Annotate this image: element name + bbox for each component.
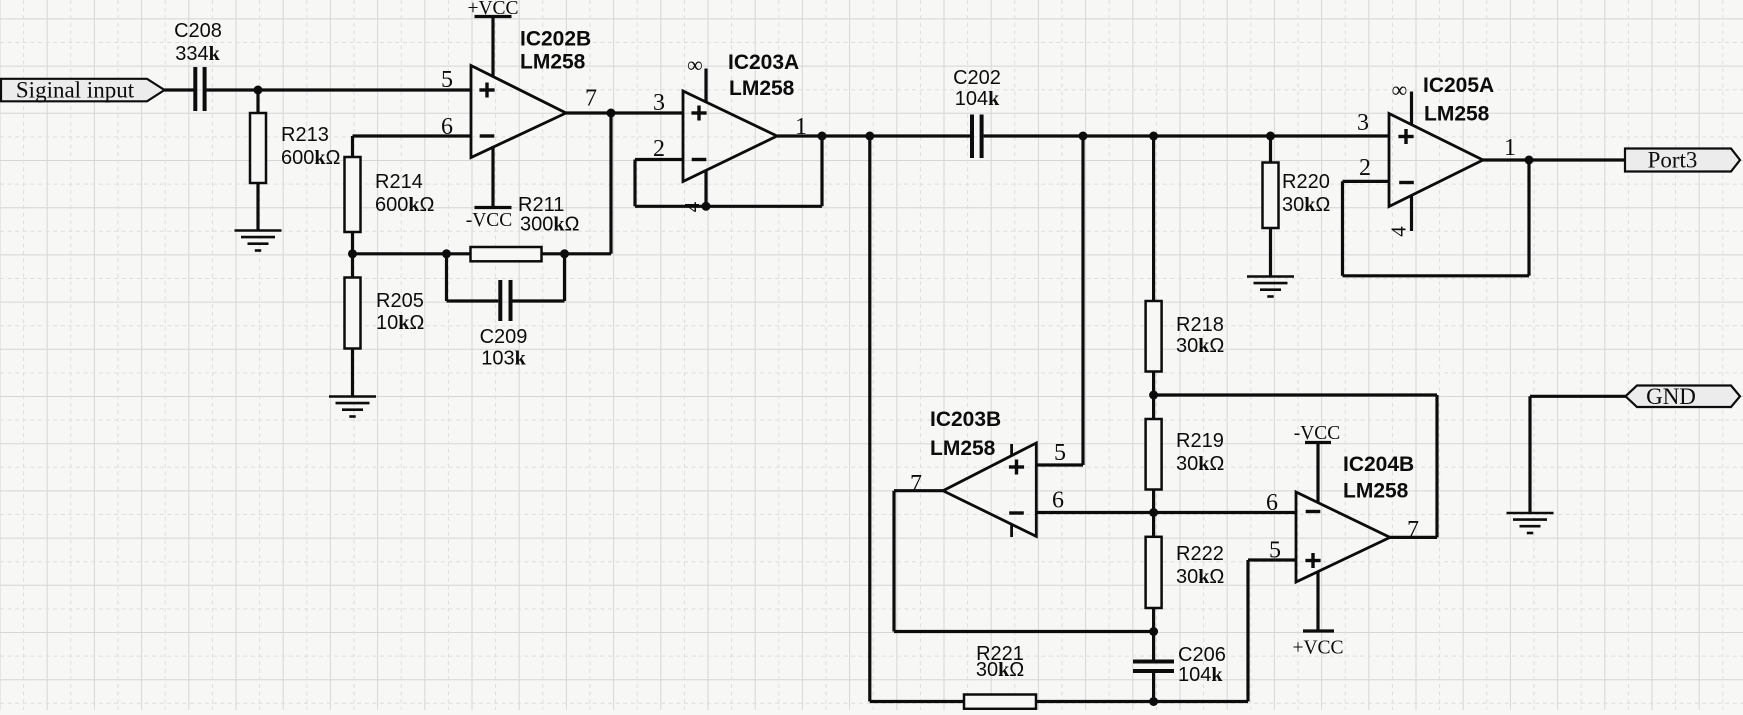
capacitor C202 bbox=[953, 67, 1001, 158]
svg-text:-VCC: -VCC bbox=[1294, 423, 1341, 444]
power +VCC (IC204B) bbox=[1292, 571, 1343, 659]
wire IC205A out to Port3 bbox=[1483, 158, 1625, 161]
wire IC203A pin2 bbox=[635, 158, 683, 161]
svg-text:30kΩ: 30kΩ bbox=[1282, 194, 1330, 216]
junction node rail/IC203B riser bbox=[1079, 132, 1088, 141]
power pin 8 (IC203A) bbox=[687, 52, 706, 103]
op-amp IC203A LM258 bbox=[683, 51, 799, 182]
svg-text:1: 1 bbox=[1504, 135, 1516, 161]
wire IC204B out riser bbox=[1390, 395, 1437, 537]
junction node rail/left riser bbox=[865, 132, 874, 141]
svg-text:6: 6 bbox=[1266, 490, 1278, 516]
power pin 4 (IC205A) bbox=[1386, 195, 1411, 237]
resistor R221 bbox=[870, 643, 1248, 709]
svg-text:R218: R218 bbox=[1176, 314, 1224, 336]
power -VCC (IC202B) bbox=[466, 146, 513, 231]
op-amp IC204B LM258 bbox=[1296, 453, 1414, 582]
svg-text:4: 4 bbox=[1386, 226, 1410, 237]
svg-text:30kΩ: 30kΩ bbox=[976, 659, 1024, 681]
svg-text:7: 7 bbox=[910, 471, 922, 497]
wire GND flag to ground bbox=[1530, 396, 1626, 513]
power pin tick bottom (IC203B) bbox=[1010, 524, 1013, 538]
wire IC202B out to IC203A pin3 bbox=[566, 111, 683, 114]
svg-text:30kΩ: 30kΩ bbox=[1176, 335, 1224, 357]
svg-text:6: 6 bbox=[1052, 488, 1064, 514]
svg-text:5: 5 bbox=[441, 67, 453, 93]
resistor R218 bbox=[1146, 136, 1225, 419]
ground (R205) bbox=[329, 397, 376, 417]
svg-text:600kΩ: 600kΩ bbox=[281, 147, 341, 169]
svg-text:R220: R220 bbox=[1282, 171, 1330, 193]
svg-text:C209: C209 bbox=[480, 326, 528, 348]
wire IC203A out rail to C202 bbox=[777, 134, 970, 137]
junction node R214/R205/R211 bbox=[348, 249, 357, 258]
junction node rail/R218 bbox=[1149, 132, 1158, 141]
wire R218 junction to IC204B out riser bbox=[1154, 393, 1437, 396]
ground (R213) bbox=[235, 231, 282, 251]
junction node R219/pin6 rail bbox=[1149, 508, 1158, 517]
wire IC203B pin6 to IC204B pin6 bbox=[1036, 511, 1296, 514]
capacitor C206 bbox=[1133, 644, 1226, 702]
svg-text:Port3: Port3 bbox=[1648, 148, 1698, 173]
svg-text:∞: ∞ bbox=[687, 52, 703, 77]
svg-text:3: 3 bbox=[653, 90, 665, 116]
wire IC202B pin6 bbox=[353, 136, 472, 157]
resistor R205 bbox=[345, 278, 425, 397]
wire IC205A pin2 bbox=[1343, 180, 1390, 183]
junction node pin4/feedback bbox=[702, 202, 711, 211]
wire junction to R211 bbox=[353, 252, 471, 255]
svg-text:2: 2 bbox=[1359, 155, 1371, 181]
svg-text:7: 7 bbox=[1407, 517, 1419, 543]
resistor R219 bbox=[1146, 419, 1225, 537]
svg-text:R205: R205 bbox=[376, 290, 424, 312]
svg-text:6: 6 bbox=[441, 114, 453, 140]
wire long left riser bbox=[868, 136, 871, 702]
svg-text:C202: C202 bbox=[953, 67, 1001, 89]
svg-text:300kΩ: 300kΩ bbox=[520, 214, 580, 236]
svg-text:103k: 103k bbox=[481, 348, 526, 370]
svg-text:R219: R219 bbox=[1176, 430, 1224, 452]
resistor R214 bbox=[345, 157, 435, 278]
wire riser output to R211 bbox=[609, 113, 612, 254]
svg-text:+VCC: +VCC bbox=[1292, 638, 1343, 659]
resistor R213 bbox=[250, 90, 341, 231]
ground (GND net) bbox=[1507, 513, 1554, 533]
power +VCC (IC202B) bbox=[467, 0, 518, 77]
svg-text:IC203A: IC203A bbox=[728, 51, 799, 74]
junction node IC205A out/feedback bbox=[1525, 156, 1534, 165]
wire flag to C208 bbox=[165, 88, 194, 91]
junction node feedback/output rail bbox=[818, 132, 827, 141]
svg-text:LM258: LM258 bbox=[729, 77, 795, 100]
power -VCC (IC204B) bbox=[1294, 423, 1341, 503]
wire C202 to IC205A pin3 bbox=[984, 134, 1389, 137]
svg-text:IC202B: IC202B bbox=[520, 28, 591, 51]
svg-text:30kΩ: 30kΩ bbox=[1176, 566, 1224, 588]
svg-text:600kΩ: 600kΩ bbox=[375, 194, 435, 216]
resistor R220 bbox=[1263, 136, 1331, 277]
wire IC203B pin5 riser bbox=[1036, 136, 1083, 465]
resistor R211 bbox=[471, 194, 612, 261]
svg-text:+VCC: +VCC bbox=[467, 0, 518, 19]
junction node C206/bottom rail bbox=[1149, 697, 1158, 706]
junction node R222/C206/pin7 wire bbox=[1149, 627, 1158, 636]
resistor R222 bbox=[1146, 537, 1225, 660]
net label GND bbox=[1626, 384, 1741, 409]
svg-text:104k: 104k bbox=[955, 88, 1000, 110]
junction node IC202B out / R211 riser bbox=[607, 109, 616, 118]
power pin 8 (IC205A) bbox=[1392, 77, 1412, 125]
junction node rail/R220 bbox=[1266, 132, 1275, 141]
svg-text:LM258: LM258 bbox=[1343, 480, 1409, 503]
op-amp IC205A LM258 bbox=[1389, 74, 1494, 207]
svg-text:C208: C208 bbox=[174, 20, 222, 42]
svg-text:-VCC: -VCC bbox=[466, 210, 513, 231]
wire IC204B pin5 bbox=[1248, 560, 1296, 702]
svg-text:334k: 334k bbox=[175, 43, 220, 65]
svg-text:IC204B: IC204B bbox=[1343, 453, 1414, 476]
junction node R211 right / C209 bbox=[560, 249, 569, 258]
svg-text:LM258: LM258 bbox=[1424, 103, 1490, 126]
svg-text:7: 7 bbox=[585, 86, 597, 112]
svg-text:∞: ∞ bbox=[1392, 77, 1408, 102]
svg-text:C206: C206 bbox=[1178, 644, 1226, 666]
svg-text:30kΩ: 30kΩ bbox=[1176, 453, 1224, 475]
svg-text:104k: 104k bbox=[1178, 664, 1223, 686]
ground (R220) bbox=[1247, 277, 1294, 297]
svg-text:Siginal input: Siginal input bbox=[16, 78, 135, 103]
junction node R211 left / C209 bbox=[442, 249, 451, 258]
svg-text:R214: R214 bbox=[375, 171, 423, 193]
wire IC203B out down-around bbox=[894, 491, 1154, 632]
svg-text:R213: R213 bbox=[281, 124, 329, 146]
svg-text:LM258: LM258 bbox=[520, 51, 586, 74]
svg-text:3: 3 bbox=[1357, 110, 1369, 136]
power pin tick top (IC203B) bbox=[1010, 444, 1013, 456]
svg-text:5: 5 bbox=[1054, 440, 1066, 466]
power pin 4 (IC203A) bbox=[680, 171, 706, 213]
capacitor C208 bbox=[174, 20, 222, 111]
svg-text:10kΩ: 10kΩ bbox=[376, 312, 424, 334]
svg-text:LM258: LM258 bbox=[930, 437, 996, 460]
net label Siginal input bbox=[1, 78, 165, 103]
wire C208 to IC202B pin5 bbox=[207, 88, 471, 91]
junction node at C208/R213 bbox=[254, 86, 263, 95]
op-amp IC203B LM258 (mirrored) bbox=[930, 408, 1036, 536]
svg-text:R222: R222 bbox=[1176, 543, 1224, 565]
capacitor C209 bbox=[447, 254, 565, 370]
junction node R218/R219 bbox=[1149, 391, 1158, 400]
net label Port3 bbox=[1625, 148, 1740, 173]
wire feedback IC203A bbox=[635, 136, 822, 206]
svg-text:GND: GND bbox=[1646, 384, 1696, 409]
svg-text:IC205A: IC205A bbox=[1423, 74, 1494, 97]
svg-text:IC203B: IC203B bbox=[930, 408, 1001, 431]
op-amp IC202B LM258 bbox=[471, 28, 591, 158]
wire feedback IC205A bbox=[1343, 160, 1530, 276]
